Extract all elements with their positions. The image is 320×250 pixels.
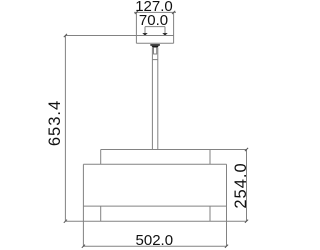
stem coupler neck left line [153,48,155,54]
tick bottom of 653.4 dimension [64,220,67,223]
canopy right edge [173,12,175,43]
canopy left edge [135,12,137,43]
70.0 right leader line [164,27,166,34]
stem left line [151,48,153,150]
tick right of 127.0 dimension [172,11,175,14]
canopy bottom edge [136,42,173,44]
502.0 dimension line [83,245,226,247]
inner shade top-right edge [209,150,211,165]
tick bottom of 254.0 dimension [245,220,248,223]
stem ferrule taper [151,46,158,48]
outer drum bottom edge [83,205,226,207]
canopy mounting plate line / ceiling extension line [65,35,173,37]
svg-text:502.0: 502.0 [136,232,174,249]
70.0 dimension line [145,26,165,28]
canopy top edge / 127.0 dimension line [134,11,176,13]
fixture bottom line with extension lines to both dimensions [65,220,246,222]
tick left of 127.0 dimension [135,11,138,14]
tick top of 254.0 dimension [245,148,248,151]
70.0 right arrowhead [162,33,167,35]
tick right of 502.0 dimension [225,245,228,248]
stem coupler neck right line [156,48,158,54]
outer drum top edge [83,163,226,165]
254.0 dimension line [246,150,248,222]
inner shade top-left edge [100,150,102,165]
stem ferrule cap [150,44,160,46]
stem right line [157,48,159,150]
inner shade bottom-left edge [100,206,102,221]
outer drum left edge with extension to 502.0 dimension [82,164,84,246]
svg-text:254.0: 254.0 [232,162,250,208]
outer drum right edge with extension to 502.0 dimension [226,164,228,246]
svg-text:653.4: 653.4 [46,100,64,146]
stem coupler joint line [153,53,157,55]
stem joint line [152,59,157,61]
653.4 dimension line [64,36,66,222]
70.0 left leader line [144,27,146,34]
inner shade bottom-right edge [209,206,211,221]
tick top of 653.4 dimension [64,34,67,37]
70.0 left arrowhead [142,33,147,35]
inner shade top edge with extension line to 254.0 dimension [101,149,247,151]
tick left of 502.0 dimension [82,245,85,248]
